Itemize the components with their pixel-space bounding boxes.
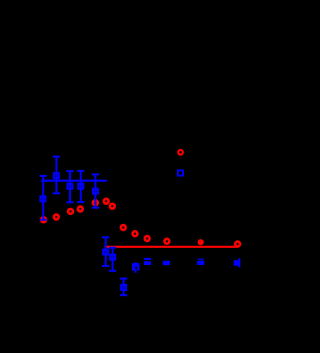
blue point B12 <box>234 258 240 267</box>
red point R8 <box>121 225 126 230</box>
red point R1 <box>41 217 46 222</box>
blue point B3 <box>77 171 84 202</box>
red point R3 <box>68 209 73 214</box>
red point R2 <box>54 215 59 220</box>
blue point B10 <box>163 261 170 265</box>
red fit line <box>105 246 238 248</box>
red point R11 <box>165 239 170 244</box>
blue point B9 <box>144 259 151 265</box>
blue fit line <box>41 180 107 182</box>
blue point B0 <box>40 176 47 220</box>
blue point B4 <box>92 174 99 207</box>
red point R5 <box>93 200 98 205</box>
blue point B2 <box>66 171 73 202</box>
blue point B7 <box>120 279 127 296</box>
blue point B1 <box>53 157 60 194</box>
red point R13 <box>235 242 240 247</box>
red point R6 <box>104 199 109 204</box>
blue point B5 <box>102 237 109 266</box>
legend blue square <box>178 170 183 175</box>
red point R10 <box>145 236 150 241</box>
red point R9 <box>133 231 138 236</box>
red point R4 <box>78 207 83 212</box>
blue point B8 <box>132 262 139 273</box>
legend red circle <box>178 150 183 155</box>
blue point B6 <box>109 248 116 271</box>
blue point B11 <box>197 259 204 265</box>
red point R7 <box>110 204 115 209</box>
red point R12 <box>198 239 204 245</box>
